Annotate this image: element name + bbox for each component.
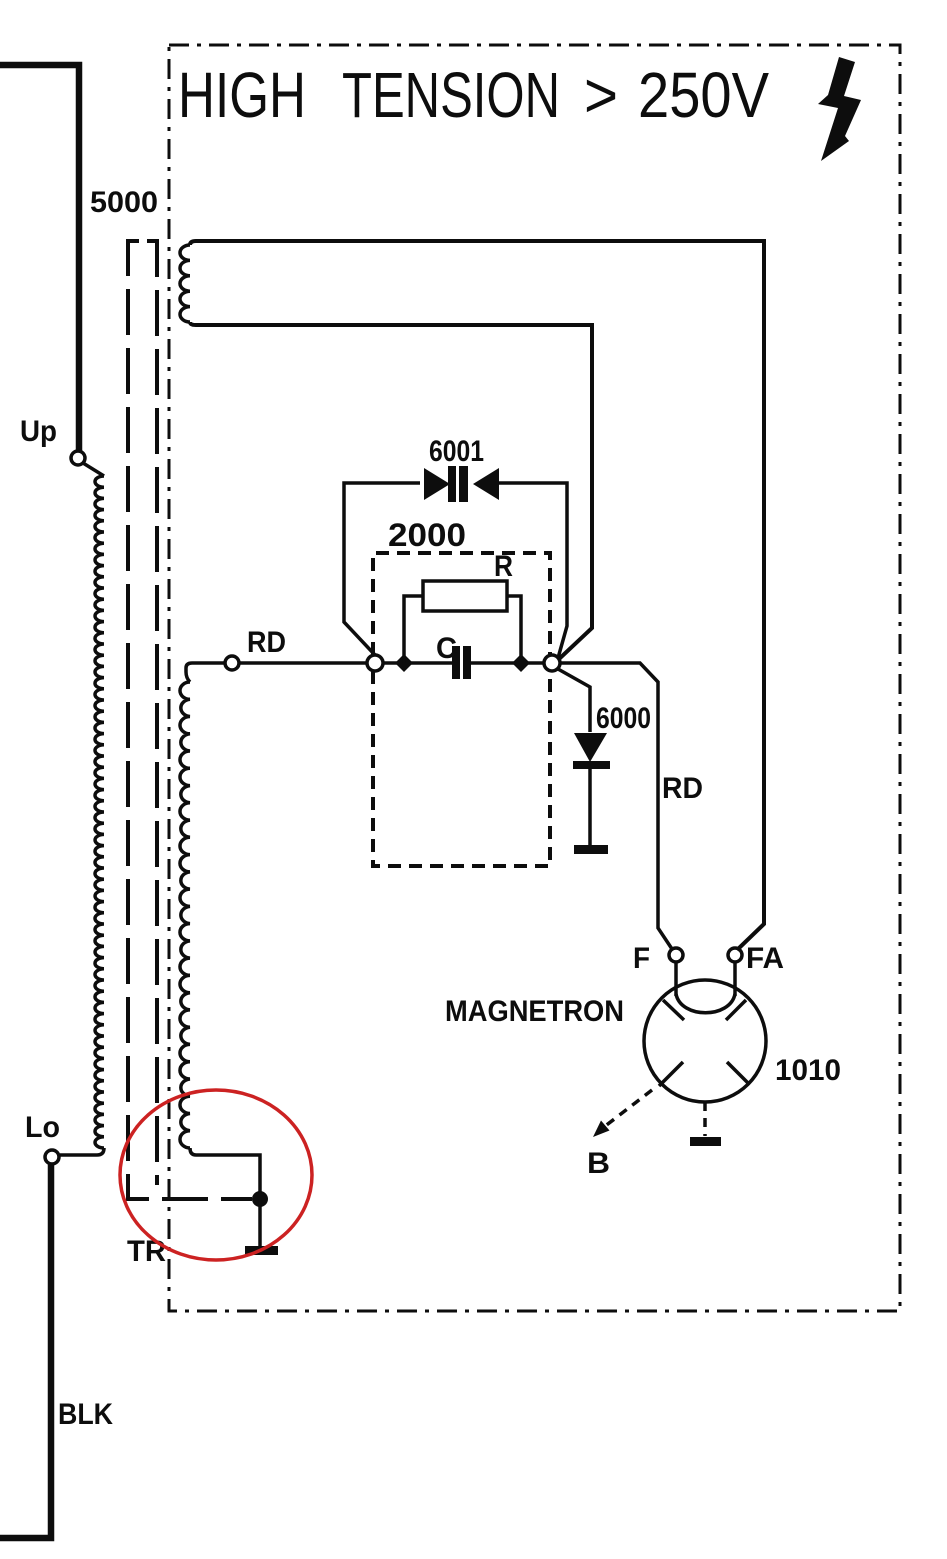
node B (right node circle) <box>544 655 560 671</box>
wire: diode 6000 to ground <box>588 769 592 845</box>
transformer filament secondary winding <box>180 245 190 322</box>
label MAGNETRON <box>445 995 624 1028</box>
wire: input to Up (thick, top-left) <box>0 65 79 451</box>
transformer primary winding <box>95 476 104 1148</box>
svg-text:MAGNETRON: MAGNETRON <box>445 995 624 1028</box>
svg-text:C: C <box>436 632 457 665</box>
label 6000 <box>596 702 651 735</box>
label F <box>633 942 650 975</box>
wire: node A up-left to diode 6001 left <box>344 483 420 655</box>
terminal FA <box>728 948 742 962</box>
label RD <box>247 626 286 659</box>
svg-text:RD: RD <box>662 772 703 805</box>
label FA <box>746 942 784 975</box>
capacitor C <box>452 646 471 679</box>
svg-text:250V: 250V <box>638 59 769 131</box>
terminal Lo <box>45 1150 59 1164</box>
wire: primary bottom to Lo terminal <box>60 1148 104 1155</box>
label BLK <box>58 1398 113 1431</box>
wire: filament top to FA column <box>190 241 764 950</box>
wire: node B to diode 6000 <box>558 669 590 732</box>
svg-text:RD: RD <box>247 626 286 659</box>
node A (left node circle) <box>367 655 383 671</box>
wire: junction to TR ground <box>258 1199 262 1246</box>
svg-text:B: B <box>587 1147 610 1180</box>
wire: capacitor to diamond right and node B <box>471 661 544 665</box>
magnetron filament leads <box>676 962 735 996</box>
label B <box>587 1147 610 1180</box>
transformer core (dashed) left line <box>128 241 252 1199</box>
wire: Up terminal to primary top <box>83 463 104 476</box>
magnetron filament arc <box>676 994 735 1013</box>
label Lo <box>25 1111 60 1144</box>
label TR <box>127 1235 166 1268</box>
wire: HV bottom to core junction <box>190 1148 260 1192</box>
svg-text:6000: 6000 <box>596 702 651 735</box>
svg-text:HIGH: HIGH <box>178 59 306 131</box>
label RD (right) <box>662 772 703 805</box>
ground (magnetron) <box>690 1137 721 1146</box>
label 5000 (transformer) <box>90 186 158 219</box>
dashed arrow to B <box>593 1090 652 1137</box>
wire: filament bottom to node B column <box>190 322 592 659</box>
svg-text:5000: 5000 <box>90 186 158 219</box>
node diamond right <box>512 654 530 672</box>
svg-text:Lo: Lo <box>25 1111 60 1144</box>
svg-text:>: > <box>584 59 618 131</box>
svg-text:TR: TR <box>127 1235 166 1268</box>
svg-text:6001: 6001 <box>429 435 484 468</box>
label 1010 <box>775 1054 841 1087</box>
transformer core (dashed) right line <box>147 241 157 1185</box>
HIGH TENSION > 250V title <box>178 59 769 131</box>
diode 6001 <box>424 466 499 502</box>
svg-text:Up: Up <box>20 415 57 448</box>
label Up <box>20 415 57 448</box>
svg-text:FA: FA <box>746 942 784 975</box>
terminal F <box>669 948 683 962</box>
svg-text:2000: 2000 <box>388 517 466 553</box>
wire: diode 6001 right to node B <box>499 483 567 658</box>
magnetron body circle <box>644 980 766 1102</box>
HIGH TENSION enclosure border <box>169 45 900 1311</box>
ground (diode 6000) <box>574 845 608 854</box>
svg-text:BLK: BLK <box>58 1398 113 1431</box>
wire: HV top to RD terminal and node <box>186 663 367 682</box>
magnetron anode vanes <box>659 1000 749 1086</box>
label C <box>436 632 457 665</box>
svg-text:TENSION: TENSION <box>342 59 560 131</box>
label R <box>494 550 513 583</box>
ground TR <box>245 1246 278 1255</box>
magnetron ground (dashed lead) <box>703 1102 707 1136</box>
terminal Up <box>71 451 85 465</box>
wire: Lo to bottom-left output (thick) <box>0 1164 51 1538</box>
lightning bolt icon <box>818 57 861 161</box>
wire: node A to diamond left <box>383 661 452 665</box>
svg-text:R: R <box>494 550 513 583</box>
svg-text:1010: 1010 <box>775 1054 841 1087</box>
capacitor box 2000 (dashed) <box>373 553 550 866</box>
diode 6000 <box>573 733 610 769</box>
junction dot (core/HV to ground) <box>252 1191 268 1207</box>
wire: node B to F terminal (RD) <box>560 663 672 949</box>
label 2000 <box>388 517 466 553</box>
svg-text:F: F <box>633 942 650 975</box>
node diamond left <box>395 654 413 672</box>
transformer HV secondary winding <box>180 682 190 1148</box>
label 6001 <box>429 435 484 468</box>
resistor R <box>404 581 521 663</box>
red highlight ellipse <box>120 1090 312 1260</box>
terminal RD <box>225 656 239 670</box>
